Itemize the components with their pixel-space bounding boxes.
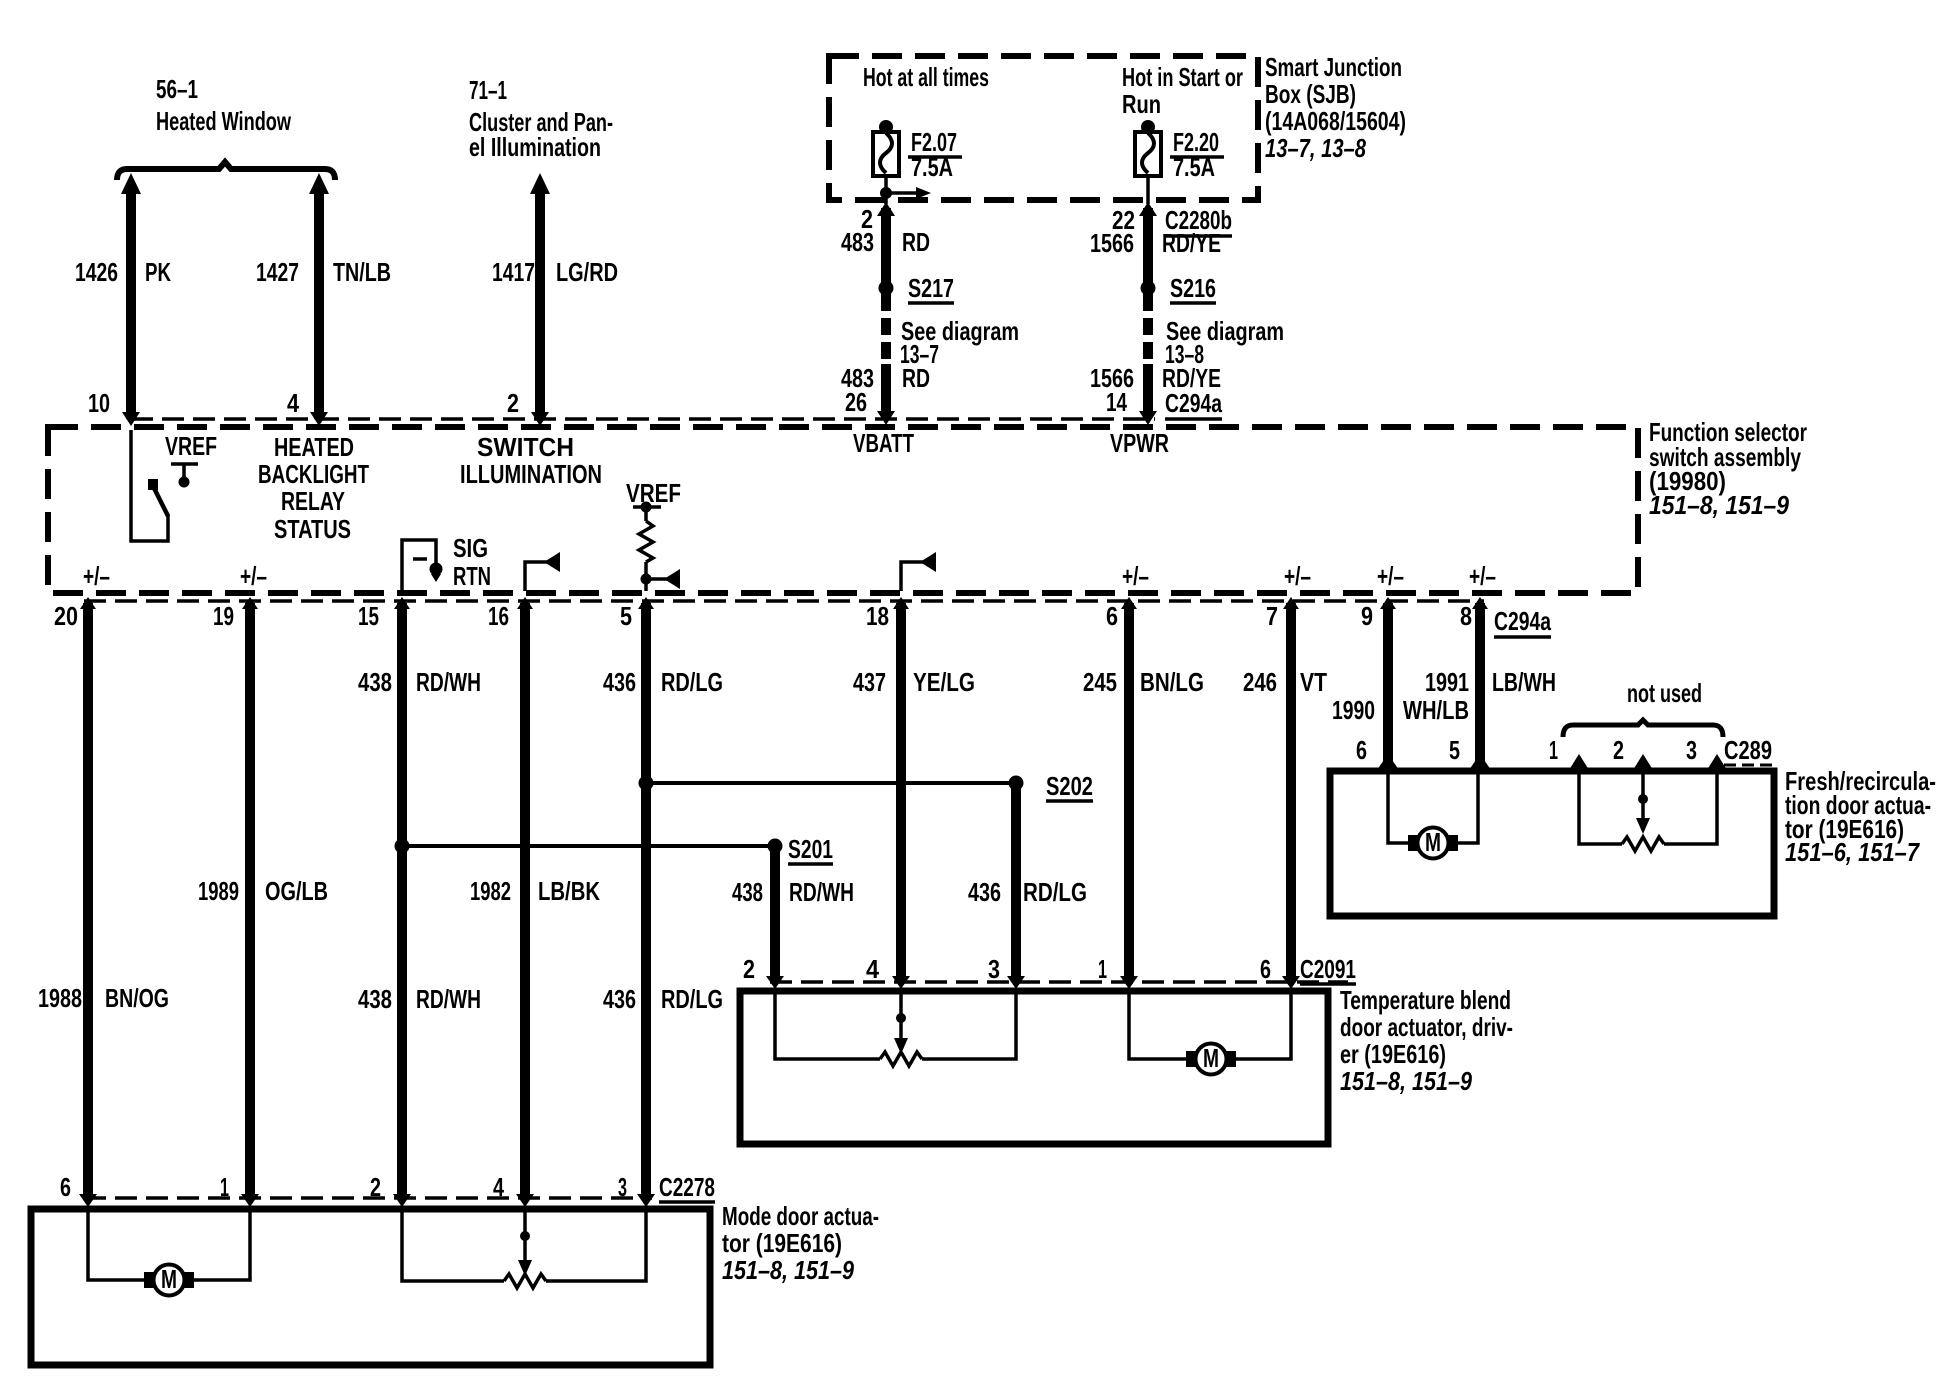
svg-text:Smart Junction: Smart Junction <box>1265 52 1402 82</box>
label HEATED BACKLIGHT RELAY STATUS <box>258 432 369 544</box>
svg-text:LB/WH: LB/WH <box>1492 667 1556 697</box>
svg-text:4: 4 <box>866 954 879 984</box>
svg-text:1990: 1990 <box>1332 695 1375 725</box>
label Temperature blend door actuator, driver (19E616) 151-8, 151-9 <box>1340 985 1513 1096</box>
svg-text:4: 4 <box>287 388 299 418</box>
svg-text:3: 3 <box>988 954 1000 984</box>
svg-text:3: 3 <box>618 1172 627 1202</box>
motor M (C2278 pins 6-1) <box>88 1209 250 1296</box>
Smart Junction Box dashed enclosure <box>829 56 1258 200</box>
svg-text:RD/LG: RD/LG <box>1023 877 1087 907</box>
wire 1989 OG/LB (pin 19 to C2278 pin 1) <box>198 597 328 1207</box>
stub pin 3 (C289 not used) <box>1664 754 1727 844</box>
wire below fuse F2.20 <box>1146 176 1150 204</box>
svg-text:RD/LG: RD/LG <box>661 984 723 1014</box>
svg-text:16: 16 <box>488 601 509 631</box>
bracket not used (C289 pins 1-3) <box>1563 720 1723 737</box>
wire 438 RD/WH (pin 15 to C2278 pin 2) <box>358 597 481 1207</box>
label Hot in Start or Run <box>1122 62 1243 119</box>
wire 245 BN/LG (pin 6 to C2091 pin 1) <box>1083 597 1204 989</box>
svg-text:Box (SJB): Box (SJB) <box>1265 79 1356 109</box>
svg-text:er (19E616): er (19E616) <box>1340 1039 1446 1069</box>
svg-text:SIG: SIG <box>453 533 488 563</box>
splice S201 (438 RD/WH branch) <box>395 834 834 864</box>
svg-text:2: 2 <box>743 954 755 984</box>
wire 1990 WH/LB (pin 9 to C289 pin 6) <box>1332 597 1469 770</box>
wire 1982 LB/BK (pin 16 to C2278 pin 4) <box>470 597 600 1207</box>
connector C294a (bottom) <box>1494 606 1551 637</box>
svg-text:M: M <box>161 1264 177 1294</box>
svg-text:8: 8 <box>1460 601 1472 631</box>
svg-text:6: 6 <box>1106 601 1118 631</box>
bracket heated window destination <box>117 162 335 180</box>
svg-text:YE/LG: YE/LG <box>913 667 975 697</box>
svg-text:WH/LB: WH/LB <box>1403 695 1469 725</box>
svg-text:+/–: +/– <box>240 561 267 591</box>
svg-text:M: M <box>1425 827 1441 857</box>
svg-text:VT: VT <box>1300 667 1327 697</box>
connector C2278 dashed line <box>84 1196 652 1200</box>
svg-text:438: 438 <box>732 877 763 907</box>
svg-text:el Illumination: el Illumination <box>469 132 601 162</box>
svg-text:6: 6 <box>60 1172 71 1202</box>
svg-text:door actuator, driv-: door actuator, driv- <box>1340 1012 1513 1042</box>
wire 1991 LB/WH (pin 8 to C289 pin 5) <box>1425 597 1556 770</box>
svg-text:C2091: C2091 <box>1300 954 1356 984</box>
svg-text:1427: 1427 <box>256 257 299 287</box>
svg-text:5: 5 <box>1449 735 1460 765</box>
wire 1566 RD/YE (fuse F2.20 to VPWR pin 14) <box>1139 202 1157 425</box>
svg-text:S201: S201 <box>788 834 833 864</box>
wire label 1566 RD/YE upper <box>1090 228 1221 258</box>
svg-text:OG/LB: OG/LB <box>265 876 328 906</box>
relay status switch (pin 10) <box>131 430 168 541</box>
splice S216 <box>1141 273 1217 303</box>
svg-text:Temperature blend: Temperature blend <box>1340 985 1511 1015</box>
svg-text:1: 1 <box>220 1172 229 1202</box>
potentiometer wiper (C2278 pin 4) <box>518 1209 532 1276</box>
svg-text:1566: 1566 <box>1090 228 1134 258</box>
wire 436 RD/LG branch (S202 to C2091 pin 3) <box>968 783 1087 989</box>
svg-text:151–8, 151–9: 151–8, 151–9 <box>1649 490 1789 520</box>
svg-text:1426: 1426 <box>75 257 118 287</box>
flag terminal (pin 16) <box>525 552 560 591</box>
svg-text:Run: Run <box>1122 89 1161 119</box>
svg-text:18: 18 <box>866 601 889 631</box>
svg-text:1: 1 <box>1098 954 1107 984</box>
VREF terminal (relay status switch) <box>165 431 217 488</box>
svg-text:6: 6 <box>1260 954 1271 984</box>
svg-text:LB/BK: LB/BK <box>538 876 600 906</box>
svg-text:13–7, 13–8: 13–7, 13–8 <box>1265 133 1366 163</box>
potentiometer wiper stub pin 2 (C289) <box>1633 754 1653 834</box>
svg-text:RD/WH: RD/WH <box>416 984 481 1014</box>
stub pin 1 (C289 not used) <box>1569 754 1622 844</box>
wire label 483 RD upper <box>841 227 930 257</box>
Function selector switch assembly dashed enclosure <box>48 427 1638 593</box>
svg-text:LG/RD: LG/RD <box>556 257 618 287</box>
svg-text:ILLUMINATION: ILLUMINATION <box>460 459 602 489</box>
wire label 483 RD lower <box>841 363 930 393</box>
motor M (C2091 pins 1-6) <box>1129 991 1291 1075</box>
svg-text:9: 9 <box>1361 601 1373 631</box>
connector C294a dashed line top <box>131 417 1155 421</box>
svg-text:(14A068/15604): (14A068/15604) <box>1265 106 1406 136</box>
label Mode door actuator (19E616) 151-8, 151-9 <box>722 1201 879 1285</box>
splice S202 (436 RD/LG branch) <box>639 771 1094 801</box>
fuse F2.20 7.5A <box>1135 120 1224 182</box>
fuse F2.07 7.5A <box>873 120 962 182</box>
svg-text:7: 7 <box>1266 601 1278 631</box>
svg-text:246: 246 <box>1243 667 1277 697</box>
svg-text:VREF: VREF <box>165 431 217 461</box>
svg-text:Heated Window: Heated Window <box>156 106 292 136</box>
svg-text:2: 2 <box>507 388 519 418</box>
potentiometer (C289 pins 1-3) <box>1622 837 1664 851</box>
svg-text:S216: S216 <box>1170 273 1216 303</box>
flag terminal (pin 5 VREF branch) <box>646 569 680 589</box>
label Fresh/recirculation door actuator (19E616) 151-6, 151-7 <box>1785 766 1936 867</box>
svg-text:26: 26 <box>845 387 867 417</box>
connector C2278 label <box>659 1172 715 1202</box>
svg-text:BN/LG: BN/LG <box>1140 667 1204 697</box>
svg-text:RELAY: RELAY <box>281 486 345 516</box>
wire 438 RD/WH branch (S201 to C2091 pin 2) <box>732 846 854 989</box>
potentiometer wiper (C2091 pin 4) <box>894 991 908 1054</box>
svg-text:RD/WH: RD/WH <box>789 877 854 907</box>
connector C2280b <box>1165 205 1232 236</box>
svg-text:6: 6 <box>1356 735 1367 765</box>
svg-text:BACKLIGHT: BACKLIGHT <box>258 459 369 489</box>
svg-text:20: 20 <box>54 601 78 631</box>
svg-text:437: 437 <box>853 667 886 697</box>
svg-text:VBATT: VBATT <box>853 428 914 458</box>
svg-text:+/–: +/– <box>83 561 110 591</box>
wire below fuse F2.07 with distribution arrow <box>880 176 931 204</box>
wire 483 RD (fuse F2.07 to VBATT pin 26) <box>877 202 895 425</box>
wire label 1566 RD/YE lower <box>1090 363 1221 393</box>
SIG RTN terminal (pin 15) <box>402 533 491 591</box>
note See diagram 13-7 <box>900 316 1019 369</box>
svg-text:C294a: C294a <box>1165 388 1222 418</box>
svg-text:438: 438 <box>358 984 392 1014</box>
note See diagram 13-8 <box>1165 316 1284 369</box>
svg-text:+/–: +/– <box>1122 561 1149 591</box>
wire 246 VT (pin 7 to C2091 pin 6) <box>1243 597 1327 989</box>
label SWITCH ILLUMINATION <box>460 432 602 489</box>
svg-text:RD: RD <box>902 227 930 257</box>
VREF resistor (pin 5) <box>626 478 681 591</box>
svg-text:1: 1 <box>1549 735 1558 765</box>
svg-text:151–6, 151–7: 151–6, 151–7 <box>1785 837 1920 867</box>
connector C2091 dashed line <box>770 980 1348 984</box>
svg-text:RD: RD <box>902 363 930 393</box>
svg-text:RD/LG: RD/LG <box>661 667 723 697</box>
svg-text:+/–: +/– <box>1377 561 1404 591</box>
svg-text:7.5A: 7.5A <box>911 152 953 182</box>
svg-text:M: M <box>1203 1043 1219 1073</box>
svg-text:HEATED: HEATED <box>274 432 354 462</box>
svg-text:14: 14 <box>1106 387 1127 417</box>
svg-text:1991: 1991 <box>1425 667 1469 697</box>
svg-text:Hot in Start or: Hot in Start or <box>1122 62 1243 92</box>
svg-text:tor (19E616): tor (19E616) <box>722 1228 842 1258</box>
svg-text:SWITCH: SWITCH <box>477 432 574 462</box>
svg-text:C294a: C294a <box>1494 606 1551 636</box>
potentiometer (C2278 pins 2-3) <box>402 1209 646 1288</box>
svg-text:1989: 1989 <box>198 876 239 906</box>
svg-text:7.5A: 7.5A <box>1173 152 1215 182</box>
wire 1417 LG/RD (arrow up to 71-1) <box>492 173 618 426</box>
Fresh/recirculation door actuator box <box>1330 771 1774 916</box>
connector C289 label <box>1724 735 1774 765</box>
label 71-1 Cluster and Panel Illumination <box>469 75 613 162</box>
wire 436 RD/LG (pin 5 to C2278 pin 3) <box>603 597 723 1207</box>
svg-text:436: 436 <box>968 877 1001 907</box>
svg-text:STATUS: STATUS <box>274 514 351 544</box>
svg-text:RD/YE: RD/YE <box>1162 228 1221 258</box>
svg-text:1982: 1982 <box>470 876 511 906</box>
svg-text:4: 4 <box>493 1172 504 1202</box>
svg-text:C289: C289 <box>1724 735 1772 765</box>
svg-text:S202: S202 <box>1046 771 1093 801</box>
svg-text:S217: S217 <box>908 273 954 303</box>
wire 1427 TN/LB (arrow up to 56-1) <box>256 173 391 426</box>
svg-text:1417: 1417 <box>492 257 535 287</box>
flag terminal (pin 18) <box>901 552 936 591</box>
label Smart Junction Box (SJB) (14A068/15604) 13-7, 13-8 <box>1265 52 1406 163</box>
svg-text:+/–: +/– <box>1469 561 1496 591</box>
Mode door actuator box <box>31 1209 710 1365</box>
svg-text:RTN: RTN <box>453 561 491 591</box>
wire 1426 PK (arrow up to 56-1) <box>75 173 171 426</box>
label Function selector switch assembly (19980) 151-8, 151-9 <box>1649 417 1807 520</box>
svg-text:VPWR: VPWR <box>1110 428 1169 458</box>
svg-text:56–1: 56–1 <box>156 74 198 104</box>
connector C294a dashed line bottom <box>84 599 1484 603</box>
splice S217 <box>879 273 955 303</box>
svg-text:RD/WH: RD/WH <box>416 667 481 697</box>
svg-text:71–1: 71–1 <box>469 75 507 105</box>
svg-text:151–8, 151–9: 151–8, 151–9 <box>1340 1066 1472 1096</box>
svg-text:10: 10 <box>88 388 110 418</box>
svg-text:2: 2 <box>370 1172 381 1202</box>
svg-text:C2278: C2278 <box>659 1172 715 1202</box>
svg-text:151–8, 151–9: 151–8, 151–9 <box>722 1255 854 1285</box>
wire 1988 BN/OG (pin 20 to C2278 pin 6) <box>38 597 169 1207</box>
connector C294a (top) <box>1165 388 1222 419</box>
svg-text:245: 245 <box>1083 667 1117 697</box>
svg-text:2: 2 <box>1613 735 1624 765</box>
svg-text:3: 3 <box>1686 735 1697 765</box>
svg-text:Hot at all times: Hot at all times <box>863 62 989 92</box>
svg-text:Mode door actua-: Mode door actua- <box>722 1201 879 1231</box>
label 56-1 Heated Window <box>156 74 292 136</box>
motor M (C289 pins 6-5) <box>1388 771 1478 859</box>
connector C2091 label <box>1300 954 1356 984</box>
svg-text:438: 438 <box>358 667 392 697</box>
svg-text:VREF: VREF <box>626 478 681 508</box>
svg-text:19: 19 <box>213 601 234 631</box>
wire 437 YE/LG (pin 18 to C2091 pin 4) <box>853 597 975 989</box>
svg-text:TN/LB: TN/LB <box>333 257 391 287</box>
Temperature blend door actuator box <box>740 991 1328 1144</box>
svg-text:PK: PK <box>145 257 171 287</box>
svg-text:15: 15 <box>358 601 379 631</box>
svg-text:+/–: +/– <box>1284 561 1311 591</box>
svg-text:483: 483 <box>841 227 874 257</box>
potentiometer (C2091 pins 2-3) <box>775 991 1016 1066</box>
svg-text:436: 436 <box>603 667 636 697</box>
svg-text:5: 5 <box>620 601 632 631</box>
svg-text:436: 436 <box>603 984 636 1014</box>
svg-text:1988: 1988 <box>38 983 82 1013</box>
svg-text:BN/OG: BN/OG <box>105 983 169 1013</box>
svg-text:not used: not used <box>1627 678 1702 708</box>
